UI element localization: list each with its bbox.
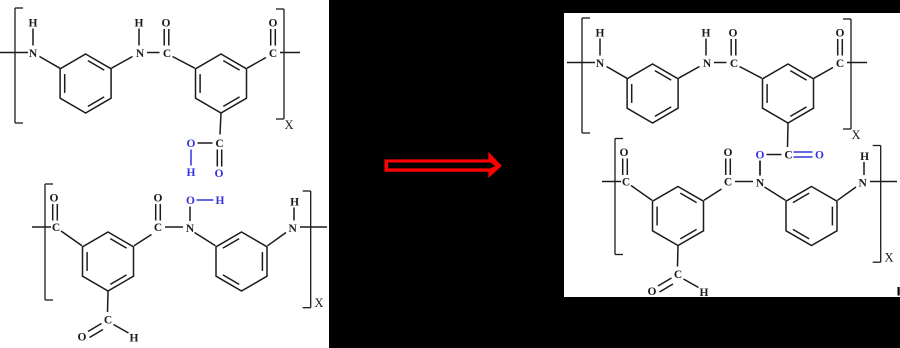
wire N-ring bond P4 xyxy=(765,187,786,200)
svg-text:C: C xyxy=(724,177,732,189)
svg-text:H: H xyxy=(700,287,709,299)
wire chain exit bond P2 xyxy=(300,226,327,228)
svg-text:X: X xyxy=(314,296,323,310)
ester O-N bond xyxy=(759,161,761,176)
H on N1 P1 xyxy=(29,18,38,46)
wire C1-ring bond P1 xyxy=(173,57,195,69)
svg-text:N: N xyxy=(288,223,297,235)
hydroxamic N P2 xyxy=(186,223,195,235)
svg-text:N: N xyxy=(596,58,605,70)
svg-text:O: O xyxy=(269,18,278,30)
svg-text:N: N xyxy=(858,178,867,190)
H on N2 P1 xyxy=(135,18,144,46)
wire N1-ring bond P1 xyxy=(40,57,60,69)
right bracket P4 xyxy=(873,146,881,263)
amine N1 P1 xyxy=(29,48,38,60)
wire N-O bond P2 xyxy=(189,207,191,222)
wire C1-ring bond P3 xyxy=(740,67,762,79)
carbonyl O2 double bond P1 xyxy=(269,18,278,46)
svg-text:C: C xyxy=(622,177,630,189)
wire chain entry bond P4 xyxy=(602,181,621,183)
carbonyl O2 double bond P4 xyxy=(724,147,733,175)
ester stub C xyxy=(784,150,792,162)
H on N1 P3 xyxy=(596,28,605,56)
benzene ring D P4 xyxy=(786,187,837,246)
benzene ring A P3 xyxy=(627,64,678,123)
svg-text:C: C xyxy=(52,222,60,234)
wire ring-C2 bond P1 xyxy=(247,58,266,69)
wire ring-C2 bond P4 xyxy=(704,189,722,200)
ester bridging O xyxy=(756,150,765,162)
H on N2 P4 xyxy=(860,151,869,175)
svg-text:N: N xyxy=(756,178,765,190)
svg-text:N: N xyxy=(29,48,38,60)
svg-text:H: H xyxy=(29,18,38,30)
svg-text:X: X xyxy=(284,118,293,132)
carbonyl O2 double bond P3 xyxy=(836,28,845,56)
wire ring-N2 bond P2 xyxy=(268,233,287,246)
wire N-O bond P4 xyxy=(759,161,761,176)
svg-text:C: C xyxy=(836,58,844,70)
svg-text:O: O xyxy=(724,147,733,159)
svg-text:O: O xyxy=(162,18,171,30)
carbonyl C2 P2 xyxy=(154,222,162,234)
acid H P1 xyxy=(187,167,196,179)
wire N1-ring bond P3 xyxy=(607,67,627,79)
wire N-ring bond P2 xyxy=(195,233,216,246)
svg-text:N: N xyxy=(703,58,712,70)
svg-text:C: C xyxy=(269,48,277,60)
aldehyde C-H bond P2 xyxy=(114,325,129,334)
svg-text:O: O xyxy=(154,193,163,205)
repeat subscript x P2 xyxy=(314,296,323,310)
acid hydroxyl O P1 xyxy=(187,138,196,150)
wire C2-N bond P4 xyxy=(735,181,753,183)
svg-text:H: H xyxy=(135,18,144,30)
wire chain exit bond P4 xyxy=(870,181,897,183)
wire ring-N2 bond P3 xyxy=(679,67,700,79)
carbonyl C2 P1 xyxy=(269,48,277,60)
carbonyl C1 P4 xyxy=(622,177,630,189)
svg-text:C: C xyxy=(730,58,738,70)
repeat subscript x P4 xyxy=(884,251,893,265)
hydroxyl O-H bond P2 xyxy=(197,199,214,201)
carbonyl C2 P4 xyxy=(724,177,732,189)
wire C1-ring bond P2 xyxy=(61,231,82,246)
svg-text:C: C xyxy=(163,48,171,60)
svg-text:O: O xyxy=(729,28,738,40)
svg-text:C: C xyxy=(154,222,162,234)
red reaction arrow xyxy=(385,152,502,178)
benzene ring B P3 xyxy=(763,64,814,123)
svg-text:O: O xyxy=(215,168,224,180)
wire N2-C1 bond P1 xyxy=(147,52,160,54)
amine N2 P2 xyxy=(288,223,297,235)
aldehyde C P4 xyxy=(674,269,682,281)
aldehyde C P2 xyxy=(104,315,112,327)
wire aldehyde bond P4 xyxy=(677,246,680,267)
ester O-C bond xyxy=(767,154,782,156)
benzene ring C P4 xyxy=(653,187,704,246)
carbonyl O2 double bond P2 xyxy=(154,193,163,221)
wire pendant bond P3 xyxy=(787,123,790,147)
aldehyde O=C double bond P4 xyxy=(658,278,673,292)
hydroxamic N P4 xyxy=(756,178,765,190)
wire C1-ring bond P4 xyxy=(631,186,652,201)
wire chain entry bond P3 xyxy=(567,62,595,64)
wire chain exit bond P3 xyxy=(847,62,867,64)
amine N2 P4 xyxy=(858,178,867,190)
wire ring-N2 bond P1 xyxy=(112,57,133,69)
left bracket P1 xyxy=(15,8,23,123)
svg-text:H: H xyxy=(596,28,605,40)
svg-text:O: O xyxy=(50,193,59,205)
svg-text:C: C xyxy=(215,138,223,150)
wire chain exit bond P1 xyxy=(280,52,300,54)
svg-text:C: C xyxy=(104,315,112,327)
wire aldehyde bond P2 xyxy=(107,292,110,313)
wire C2-N bond P2 xyxy=(165,226,183,228)
svg-text:N: N xyxy=(136,48,145,60)
svg-text:X: X xyxy=(851,128,860,142)
aldehyde H P4 xyxy=(700,287,709,299)
carbonyl C1 P3 xyxy=(730,58,738,70)
wire N2-C1 bond P3 xyxy=(714,62,727,64)
svg-text:O: O xyxy=(815,150,824,162)
svg-text:H: H xyxy=(216,195,225,207)
svg-text:H: H xyxy=(290,197,299,209)
repeat subscript x P3 xyxy=(851,128,860,142)
amide N2 P1 xyxy=(136,48,145,60)
svg-text:C: C xyxy=(674,269,682,281)
H on N2 P3 xyxy=(702,28,711,56)
ester carbonyl O xyxy=(815,150,824,162)
wire ring-C2 bond P3 xyxy=(814,68,833,79)
svg-text:O: O xyxy=(186,195,195,207)
amine N1 P3 xyxy=(596,58,605,70)
svg-text:O: O xyxy=(836,28,845,40)
right bracket P1 xyxy=(276,9,284,119)
hydroxyl H P2 xyxy=(216,195,225,207)
panel edge artifact xyxy=(898,287,900,296)
benzene ring A P1 xyxy=(60,54,111,113)
svg-text:H: H xyxy=(860,151,869,163)
svg-text:H: H xyxy=(702,28,711,40)
aldehyde O P4 xyxy=(648,286,657,298)
aldehyde O P2 xyxy=(78,332,87,344)
left bracket P3 xyxy=(582,18,590,133)
svg-text:C: C xyxy=(784,150,792,162)
wire ring-C2 bond P2 xyxy=(134,235,152,246)
carbonyl O1 double bond P2 xyxy=(50,193,59,221)
svg-text:N: N xyxy=(186,223,195,235)
svg-text:O: O xyxy=(648,286,657,298)
right bracket P2 xyxy=(303,191,311,308)
left bracket P2 xyxy=(45,184,53,300)
left bracket P4 xyxy=(615,139,623,255)
svg-text:O: O xyxy=(620,147,629,159)
ester C=O double bond xyxy=(794,152,813,157)
svg-text:H: H xyxy=(187,167,196,179)
acid C P1 xyxy=(215,138,223,150)
right bracket P3 xyxy=(843,19,851,129)
acid O-C bond P1 xyxy=(198,142,213,144)
benzene ring D P2 xyxy=(216,232,267,291)
benzene ring C P2 xyxy=(83,232,134,291)
left white panel xyxy=(0,0,329,348)
acid carbonyl O P1 xyxy=(215,168,224,180)
svg-text:X: X xyxy=(884,251,893,265)
svg-text:H: H xyxy=(130,333,139,345)
H on N2 P2 xyxy=(290,197,299,221)
carbonyl C1 P1 xyxy=(163,48,171,60)
carbonyl O1 double bond P3 xyxy=(729,28,738,56)
wire ring-N2 bond P4 xyxy=(838,187,857,200)
right white panel xyxy=(564,13,900,297)
wire pendant bond P1 xyxy=(220,113,221,135)
carbonyl O1 double bond P1 xyxy=(162,18,171,46)
acid C=O double bond P1 xyxy=(217,150,221,167)
acid O-H bond P1 xyxy=(190,150,192,166)
svg-text:O: O xyxy=(756,150,765,162)
carbonyl O1 double bond P4 xyxy=(620,147,629,175)
repeat subscript x P1 xyxy=(284,118,293,132)
wire chain entry bond P1 xyxy=(0,52,28,54)
amide N2 P3 xyxy=(703,58,712,70)
wire chain entry bond P2 xyxy=(32,226,51,228)
aldehyde C-H bond P4 xyxy=(684,279,699,288)
hydroxyl O P2 xyxy=(186,195,195,207)
carbonyl C1 P2 xyxy=(52,222,60,234)
aldehyde O=C double bond P2 xyxy=(88,324,103,338)
benzene ring B P1 xyxy=(196,54,247,113)
svg-text:O: O xyxy=(187,138,196,150)
svg-text:O: O xyxy=(78,332,87,344)
carbonyl C2 P3 xyxy=(836,58,844,70)
aldehyde H P2 xyxy=(130,333,139,345)
